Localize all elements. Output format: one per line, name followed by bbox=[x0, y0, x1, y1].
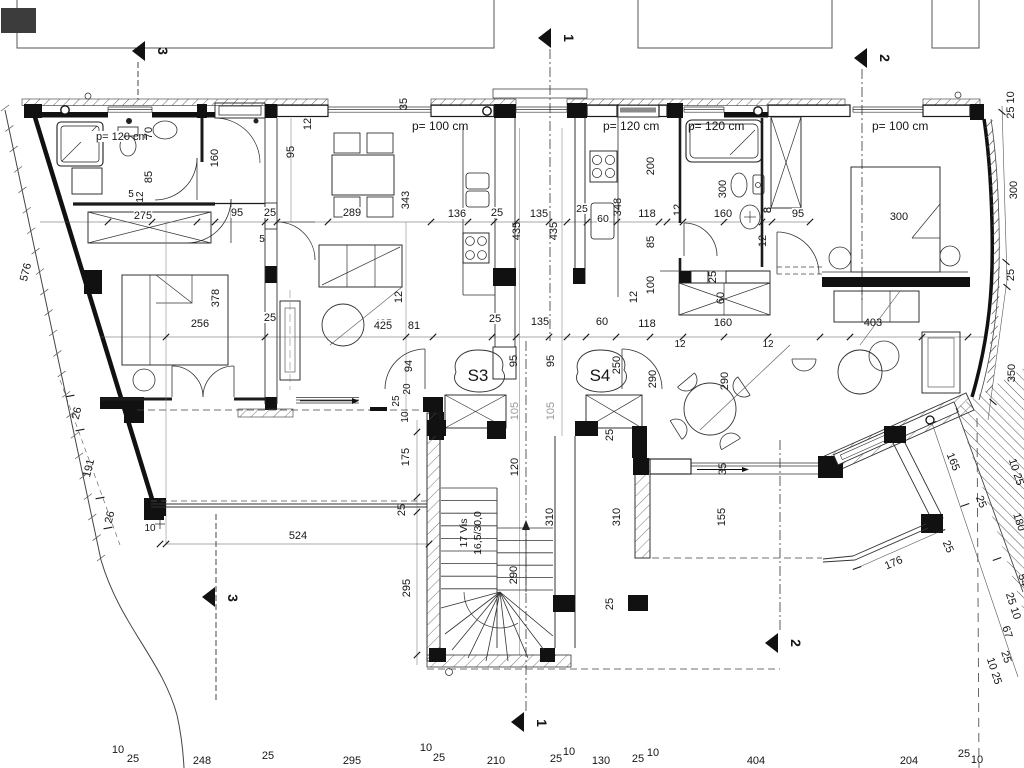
svg-text:160: 160 bbox=[209, 149, 221, 167]
svg-text:135: 135 bbox=[530, 208, 548, 220]
svg-text:10: 10 bbox=[144, 523, 156, 534]
svg-text:35: 35 bbox=[717, 463, 729, 475]
svg-text:95: 95 bbox=[545, 355, 557, 367]
svg-text:S3: S3 bbox=[468, 366, 489, 385]
svg-text:25: 25 bbox=[396, 504, 408, 516]
svg-text:25: 25 bbox=[489, 313, 501, 325]
svg-text:350: 350 bbox=[1006, 364, 1018, 382]
svg-text:1: 1 bbox=[561, 34, 577, 42]
svg-text:200: 200 bbox=[645, 157, 657, 175]
svg-text:60: 60 bbox=[596, 316, 608, 328]
svg-text:10: 10 bbox=[400, 411, 411, 423]
svg-text:378: 378 bbox=[210, 289, 222, 307]
svg-text:25: 25 bbox=[550, 753, 562, 765]
svg-text:16,5/30,0: 16,5/30,0 bbox=[472, 511, 484, 555]
svg-text:12: 12 bbox=[393, 291, 405, 303]
svg-text:25: 25 bbox=[127, 753, 139, 765]
svg-text:105: 105 bbox=[545, 402, 557, 420]
svg-text:25: 25 bbox=[632, 753, 644, 765]
svg-text:12: 12 bbox=[302, 118, 314, 130]
svg-text:130: 130 bbox=[592, 755, 610, 767]
svg-text:524: 524 bbox=[289, 530, 307, 542]
svg-text:100: 100 bbox=[645, 276, 657, 294]
svg-text:275: 275 bbox=[134, 210, 152, 222]
svg-text:95: 95 bbox=[231, 207, 243, 219]
svg-text:290: 290 bbox=[647, 370, 659, 388]
svg-text:12: 12 bbox=[135, 191, 146, 203]
svg-text:5: 5 bbox=[128, 189, 134, 200]
svg-text:105: 105 bbox=[509, 402, 521, 420]
svg-text:310: 310 bbox=[611, 508, 623, 526]
svg-text:210: 210 bbox=[487, 755, 505, 767]
svg-text:17 Vis: 17 Vis bbox=[458, 519, 470, 548]
svg-text:10: 10 bbox=[420, 742, 432, 754]
svg-text:85: 85 bbox=[645, 236, 657, 248]
svg-text:95: 95 bbox=[508, 355, 520, 367]
svg-text:435: 435 bbox=[511, 222, 523, 240]
svg-text:25: 25 bbox=[707, 271, 719, 283]
svg-text:343: 343 bbox=[400, 191, 412, 209]
svg-text:250: 250 bbox=[611, 356, 623, 374]
svg-text:25: 25 bbox=[958, 748, 970, 760]
svg-text:295: 295 bbox=[401, 579, 413, 597]
svg-text:175: 175 bbox=[400, 448, 412, 466]
svg-text:10: 10 bbox=[112, 744, 124, 756]
svg-text:35: 35 bbox=[398, 98, 410, 110]
svg-text:300: 300 bbox=[1008, 181, 1020, 199]
svg-text:25: 25 bbox=[604, 598, 616, 610]
svg-text:2: 2 bbox=[788, 639, 804, 647]
svg-text:204: 204 bbox=[900, 755, 918, 767]
svg-text:10: 10 bbox=[647, 747, 659, 759]
svg-text:2: 2 bbox=[877, 54, 893, 62]
svg-text:160: 160 bbox=[714, 208, 732, 220]
svg-text:25: 25 bbox=[264, 312, 276, 324]
svg-text:70: 70 bbox=[143, 127, 155, 139]
svg-text:8: 8 bbox=[762, 207, 774, 213]
svg-text:155: 155 bbox=[716, 508, 728, 526]
svg-text:295: 295 bbox=[343, 755, 361, 767]
svg-text:10: 10 bbox=[971, 754, 983, 766]
svg-text:25: 25 bbox=[576, 203, 588, 215]
svg-text:435: 435 bbox=[548, 222, 560, 240]
svg-text:S4: S4 bbox=[590, 366, 611, 385]
svg-text:p= 120 cm: p= 120 cm bbox=[603, 119, 659, 133]
svg-text:12: 12 bbox=[762, 339, 774, 350]
svg-text:12: 12 bbox=[674, 339, 686, 350]
svg-text:300: 300 bbox=[717, 180, 729, 198]
svg-text:248: 248 bbox=[193, 755, 211, 767]
svg-text:25 10: 25 10 bbox=[1005, 91, 1017, 119]
svg-text:95: 95 bbox=[285, 146, 297, 158]
svg-text:p= 100 cm: p= 100 cm bbox=[412, 119, 468, 133]
svg-text:136: 136 bbox=[448, 208, 466, 220]
svg-text:3: 3 bbox=[225, 594, 241, 602]
svg-text:20: 20 bbox=[402, 383, 413, 395]
svg-text:160: 160 bbox=[714, 317, 732, 329]
svg-text:12: 12 bbox=[628, 291, 640, 303]
svg-text:p= 120 cm: p= 120 cm bbox=[688, 119, 744, 133]
svg-text:p= 120 cm: p= 120 cm bbox=[96, 131, 148, 143]
svg-text:81: 81 bbox=[408, 320, 420, 332]
svg-text:256: 256 bbox=[191, 318, 209, 330]
svg-text:425: 425 bbox=[374, 320, 392, 332]
svg-text:85: 85 bbox=[143, 171, 155, 183]
svg-text:25: 25 bbox=[1005, 269, 1017, 281]
svg-text:25: 25 bbox=[433, 752, 445, 764]
svg-text:25: 25 bbox=[264, 207, 276, 219]
svg-text:1: 1 bbox=[534, 719, 550, 727]
svg-text:135: 135 bbox=[531, 316, 549, 328]
svg-text:95: 95 bbox=[792, 208, 804, 220]
svg-text:404: 404 bbox=[747, 755, 765, 767]
svg-text:5: 5 bbox=[259, 234, 265, 245]
svg-text:3: 3 bbox=[155, 47, 171, 55]
svg-text:10: 10 bbox=[563, 746, 575, 758]
svg-text:60: 60 bbox=[715, 292, 727, 304]
svg-text:290: 290 bbox=[508, 566, 520, 584]
svg-text:60: 60 bbox=[597, 213, 609, 225]
svg-text:25: 25 bbox=[604, 429, 616, 441]
svg-text:25: 25 bbox=[491, 207, 503, 219]
svg-text:310: 310 bbox=[544, 508, 556, 526]
svg-text:12: 12 bbox=[672, 204, 684, 216]
svg-text:p= 100 cm: p= 100 cm bbox=[872, 119, 928, 133]
svg-text:25: 25 bbox=[391, 395, 402, 407]
svg-text:94: 94 bbox=[403, 360, 415, 372]
svg-text:25: 25 bbox=[262, 750, 274, 762]
svg-text:120: 120 bbox=[509, 458, 521, 476]
svg-text:300: 300 bbox=[890, 211, 908, 223]
svg-text:289: 289 bbox=[343, 207, 361, 219]
svg-text:118: 118 bbox=[638, 318, 656, 330]
svg-text:118: 118 bbox=[638, 208, 656, 220]
